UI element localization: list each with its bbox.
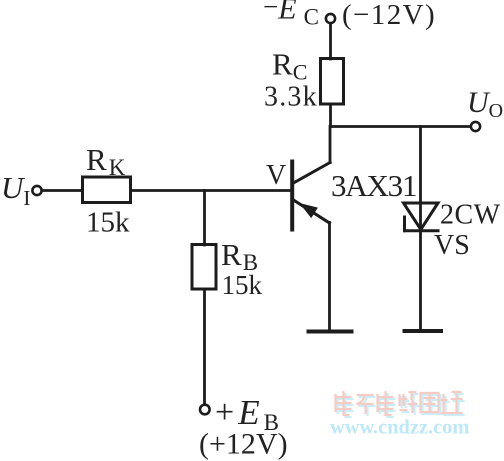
- transistor V emitter arrow: [301, 204, 317, 217]
- svg-text:15k: 15k: [222, 270, 263, 300]
- svg-text:www.cndzz.com: www.cndzz.com: [330, 417, 469, 439]
- svg-text:V: V: [266, 160, 286, 191]
- svg-text:(+12V): (+12V): [199, 428, 288, 461]
- transistor V base bar: [290, 162, 294, 230]
- watermark site name: [336, 391, 465, 417]
- svg-text:RC: RC: [272, 47, 307, 85]
- svg-text:(−12V): (−12V): [342, 0, 436, 31]
- resistor RK 15k: [83, 177, 131, 203]
- terminal -EC: [326, 14, 335, 23]
- terminal UI: [32, 186, 41, 195]
- wire emitter vertical: [328, 223, 331, 331]
- wire zener to ground: [419, 231, 422, 330]
- resistor RC 3.3k: [321, 59, 344, 105]
- svg-text:−EC: −EC: [263, 0, 319, 30]
- transistor V collector lead: [294, 163, 331, 184]
- wire output line: [331, 125, 471, 128]
- wire RC to collector node: [329, 104, 332, 127]
- svg-text:3.3k: 3.3k: [264, 82, 318, 113]
- ground zener: [405, 329, 442, 333]
- resistor RB 15k: [192, 245, 216, 290]
- terminal +EB: [200, 405, 210, 415]
- svg-text:RK: RK: [86, 142, 126, 180]
- wire UI to RK: [42, 189, 83, 192]
- ground emitter: [309, 330, 352, 334]
- zener diode VS cathode bar: [405, 229, 439, 232]
- svg-text:UO: UO: [467, 86, 503, 122]
- transistor V emitter lead: [294, 200, 330, 223]
- svg-text:2CW: 2CW: [440, 200, 501, 231]
- svg-text:15k: 15k: [86, 207, 130, 239]
- wire RB to EB terminal: [203, 289, 206, 405]
- zener diode VS triangle: [404, 203, 439, 230]
- svg-text:3AX31: 3AX31: [331, 168, 416, 203]
- wire base node down to RB: [203, 191, 206, 246]
- svg-text:VS: VS: [434, 230, 470, 261]
- terminal UO: [471, 122, 480, 131]
- zener diode VS cathode wing: [403, 217, 406, 231]
- wire zener branch: [419, 127, 422, 232]
- svg-text:UI: UI: [1, 170, 30, 210]
- wire RK to base: [131, 189, 291, 192]
- wire supply to RC: [329, 24, 332, 60]
- wire collector vertical: [329, 127, 332, 163]
